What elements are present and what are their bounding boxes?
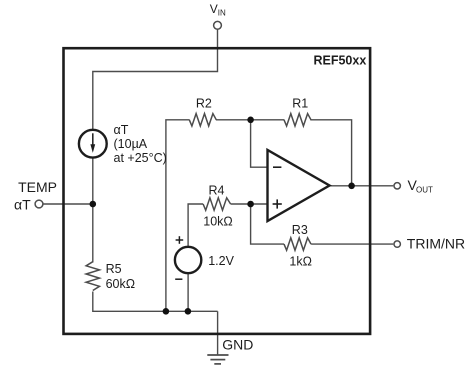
- svg-text:(10µA: (10µA: [114, 137, 148, 151]
- svg-text:R4: R4: [209, 183, 225, 197]
- svg-text:R2: R2: [196, 96, 212, 110]
- svg-text:IN: IN: [218, 8, 226, 17]
- svg-text:10kΩ: 10kΩ: [203, 214, 233, 228]
- svg-text:at +25°C): at +25°C): [114, 151, 167, 165]
- svg-text:REF50xx: REF50xx: [313, 53, 366, 67]
- svg-text:1kΩ: 1kΩ: [289, 255, 312, 269]
- svg-text:R1: R1: [292, 96, 308, 110]
- svg-text:TRIM/NR: TRIM/NR: [407, 236, 465, 252]
- svg-text:αT: αT: [114, 123, 129, 137]
- svg-text:GND: GND: [222, 336, 253, 352]
- svg-text:αT: αT: [14, 196, 31, 212]
- svg-text:TEMP: TEMP: [18, 179, 57, 195]
- svg-text:60kΩ: 60kΩ: [106, 277, 136, 291]
- svg-text:OUT: OUT: [416, 185, 433, 194]
- svg-text:V: V: [210, 2, 218, 16]
- svg-text:1.2V: 1.2V: [208, 254, 234, 268]
- svg-text:R3: R3: [292, 223, 308, 237]
- svg-text:R5: R5: [106, 262, 122, 276]
